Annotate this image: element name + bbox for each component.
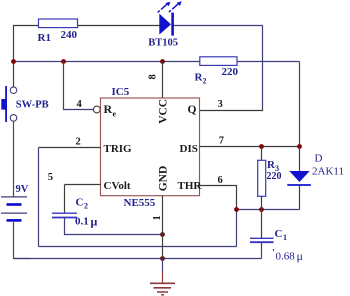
- wire pin7 DIS row: [200, 146, 300, 148]
- wire TRIG loop riser left: [38, 148, 40, 247]
- resistor R2: [200, 57, 237, 66]
- wire GND pin riser: [162, 196, 164, 259]
- LED BT105: [148, 1, 181, 48]
- svg-text:220: 220: [222, 66, 239, 78]
- svg-text:μ: μ: [91, 215, 98, 229]
- svg-text:0.68: 0.68: [276, 251, 296, 263]
- wire riser pin4: [64, 62, 94, 110]
- svg-text:2AK11: 2AK11: [312, 166, 344, 178]
- node dot bottom rail / ground: [160, 256, 165, 261]
- svg-text:e: e: [113, 110, 117, 119]
- capacitor C2: [52, 197, 98, 229]
- wire TRIG loop bottom row: [39, 246, 237, 248]
- ground: [150, 272, 175, 295]
- IC U1 NE555 box: [101, 98, 200, 196]
- node dot bus/left rail: [11, 59, 16, 64]
- diode D 2AK11: [287, 147, 344, 210]
- wire TRIG loop riser right: [236, 210, 238, 247]
- svg-text:SW-PB: SW-PB: [16, 99, 49, 110]
- wire VCC riser pin8: [162, 62, 164, 99]
- resistor R3: [258, 147, 282, 210]
- svg-text:GND: GND: [158, 166, 170, 192]
- svg-text:D: D: [315, 153, 323, 165]
- pin 4 bubble: [93, 106, 100, 113]
- svg-text:TRIG: TRIG: [104, 143, 133, 155]
- svg-text:C: C: [275, 228, 283, 240]
- wire C2 riser upper: [64, 185, 66, 214]
- node dot bus/pin4 riser: [61, 59, 66, 64]
- node dot junction/C1: [259, 207, 264, 212]
- svg-text:4: 4: [77, 99, 83, 110]
- svg-text:R: R: [104, 102, 113, 116]
- svg-text:2: 2: [84, 202, 88, 211]
- svg-text:0.1: 0.1: [75, 216, 89, 228]
- node dot C2 row / GND pin: [160, 232, 165, 237]
- svg-text:5: 5: [48, 172, 53, 183]
- svg-text:VCC: VCC: [158, 99, 170, 124]
- svg-text:CVolt: CVolt: [104, 180, 131, 192]
- svg-text:R1: R1: [38, 32, 51, 44]
- svg-text:6: 6: [218, 175, 223, 186]
- svg-text:Q: Q: [188, 104, 197, 116]
- wire pin2 TRIG row: [39, 147, 101, 149]
- node dot junction/THR: [234, 207, 239, 212]
- resistor R1: [39, 19, 78, 28]
- svg-text:240: 240: [61, 29, 78, 41]
- svg-text:8: 8: [148, 74, 159, 79]
- svg-text:NE555: NE555: [124, 197, 156, 209]
- svg-text:9V: 9V: [16, 184, 29, 195]
- svg-text:220: 220: [267, 171, 282, 182]
- wire top row left segment: [14, 25, 41, 27]
- svg-text:1: 1: [152, 215, 163, 220]
- node dot bus/VCC riser: [160, 59, 165, 64]
- node dot pin7/diode riser: [297, 144, 302, 149]
- svg-text:μ: μ: [297, 249, 303, 263]
- wire right riser from top row to pin3 row: [262, 25, 264, 111]
- svg-text:C: C: [76, 197, 84, 209]
- wire pin6 THR row: [200, 186, 237, 210]
- svg-text:BT105: BT105: [148, 38, 178, 49]
- wire bus row y61: [14, 61, 201, 63]
- svg-text:DIS: DIS: [180, 143, 198, 155]
- capacitor C1: [250, 210, 303, 264]
- wire C2 riser lower + row to GND pin: [65, 218, 163, 235]
- switch SW-PB: [1, 86, 48, 122]
- wire pin3 row: [200, 110, 264, 112]
- wire top row mid segment: [76, 25, 160, 27]
- wire rail switch to battery: [13, 121, 15, 197]
- wire riser x299 to pin7 row: [299, 62, 301, 147]
- svg-text:3: 3: [218, 99, 223, 110]
- svg-text:2: 2: [76, 136, 81, 147]
- wire bus row right of R2: [237, 61, 300, 63]
- svg-text:2: 2: [203, 77, 207, 86]
- wire bottom rail: [14, 258, 262, 260]
- svg-text:1: 1: [283, 233, 287, 242]
- svg-text:7: 7: [219, 135, 224, 146]
- wire pin5 CVolt stub: [65, 184, 101, 186]
- svg-text:THR: THR: [178, 180, 203, 192]
- battery 9V: [1, 184, 29, 220]
- wire top row right segment: [174, 25, 263, 27]
- wire left rail upper: [13, 25, 15, 87]
- wire junction row y209: [237, 209, 300, 211]
- wire rail battery to bottom: [14, 220, 31, 258]
- node dot pin7/R3: [259, 144, 264, 149]
- svg-text:IC5: IC5: [112, 86, 130, 98]
